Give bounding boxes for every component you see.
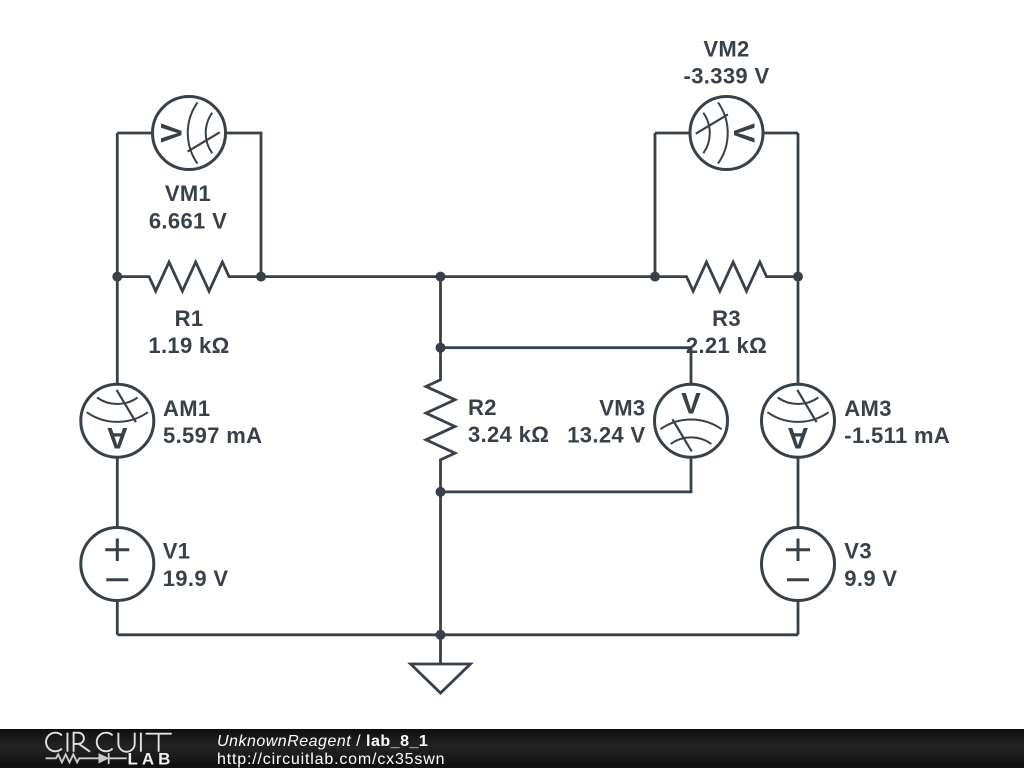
svg-text:LAB: LAB [128, 750, 175, 768]
node R1 left [112, 272, 122, 282]
svg-text:R3: R3 [712, 306, 741, 331]
node R2 top [436, 343, 446, 353]
wire left rail (R1 node down through AM1 and V1 to bottom rail) [116, 277, 119, 635]
wire center column lower (R2 bottom to ground) [439, 492, 442, 664]
svg-text:5.597 mA: 5.597 mA [163, 423, 262, 448]
voltage source V3 [762, 528, 835, 601]
svg-text:3.24 kΩ: 3.24 kΩ [468, 422, 549, 447]
svg-text:V: V [727, 123, 760, 143]
svg-text:V: V [156, 123, 189, 143]
ammeter AM1 [81, 384, 154, 457]
svg-text:13.24 V: 13.24 V [567, 423, 645, 448]
svg-text:-1.511 mA: -1.511 mA [844, 423, 950, 448]
voltmeter VM1 [153, 97, 226, 170]
CircuitLab logo resistor-diode glyph [46, 753, 127, 764]
junction node dots [112, 272, 803, 640]
wire left rail top (VM1 left lead to R1 left node) [116, 133, 119, 277]
wire VM2 top branch [655, 132, 798, 135]
svg-text:AM1: AM1 [163, 396, 211, 421]
node R2 bottom [436, 487, 446, 497]
svg-text:V: V [681, 387, 701, 420]
voltmeter VM3 [655, 384, 728, 457]
svg-text:2.21 kΩ: 2.21 kΩ [686, 333, 767, 358]
svg-text:A: A [787, 421, 808, 454]
wire VM1 top branch [117, 133, 261, 277]
node center top [436, 272, 446, 282]
svg-text:A: A [107, 421, 128, 454]
voltmeter VM2 [690, 97, 763, 170]
wire middle rail R1 to R3 [261, 275, 655, 278]
footer bar [0, 729, 1024, 768]
wire center column upper [439, 277, 442, 348]
ammeter AM3 [762, 384, 835, 457]
svg-text:1.19 kΩ: 1.19 kΩ [148, 333, 229, 358]
resistor R1 [117, 262, 260, 291]
wire bottom rail [117, 633, 798, 636]
resistor R3 [655, 262, 799, 291]
svg-text:-3.339 V: -3.339 V [684, 64, 770, 89]
svg-text:AM3: AM3 [844, 396, 892, 421]
svg-text:R1: R1 [175, 306, 204, 331]
CircuitLab logo text CIRCUIT (thin geometric letters) [46, 733, 172, 752]
svg-text:9.9 V: 9.9 V [844, 566, 897, 591]
svg-text:R2: R2 [468, 395, 497, 420]
svg-text:6.661 V: 6.661 V [149, 209, 227, 234]
ground [411, 664, 471, 693]
node R3 right [793, 272, 803, 282]
svg-text:V3: V3 [844, 539, 872, 564]
svg-text:19.9 V: 19.9 V [163, 566, 229, 591]
voltage source V1 [81, 528, 154, 601]
resistor R2 [426, 348, 455, 492]
wire VM3 top connection [441, 348, 692, 421]
svg-text:VM3: VM3 [599, 396, 645, 421]
svg-text:V1: V1 [163, 539, 191, 564]
wire VM3 bottom connection [441, 421, 692, 492]
node R1 right [256, 272, 266, 282]
wire right rail (R3 right node down through AM3 and V3) [797, 133, 800, 635]
node R3 left [650, 272, 660, 282]
wire VM2 left leg [654, 133, 657, 277]
node ground [436, 630, 446, 640]
svg-text:VM1: VM1 [165, 181, 211, 206]
svg-text:VM2: VM2 [703, 37, 749, 62]
